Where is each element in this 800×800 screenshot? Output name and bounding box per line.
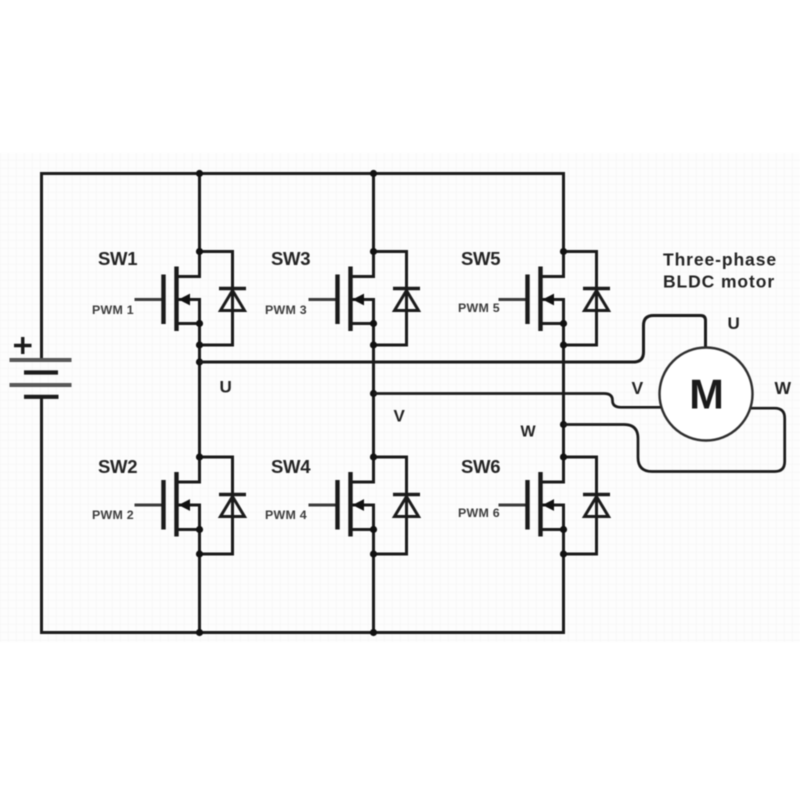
node source SW4 xyxy=(370,550,377,557)
svg-text:U: U xyxy=(220,378,232,397)
node top rail col2 xyxy=(370,170,377,177)
wire battery positive lead xyxy=(40,174,43,359)
battery BT1 xyxy=(10,337,72,397)
wire source column SW5 to drain SW6 xyxy=(562,300,565,483)
wire top positive rail xyxy=(42,172,564,175)
transistor SW6 xyxy=(499,472,568,537)
svg-text:SW6: SW6 xyxy=(461,456,500,477)
wire source column SW2 to bottom rail xyxy=(198,505,201,633)
svg-text:BLDC motor: BLDC motor xyxy=(663,272,775,292)
wire bottom negative rail xyxy=(42,631,564,634)
HALF BRIDGE COLUMN 2 xyxy=(372,174,375,633)
HALF BRIDGE COLUMN 1 xyxy=(198,174,201,633)
svg-text:M: M xyxy=(689,371,724,418)
node source SW1 xyxy=(196,341,203,348)
svg-text:W: W xyxy=(775,378,792,398)
node bottom rail col2 xyxy=(370,629,377,636)
diode D6 xyxy=(564,457,611,554)
diode D5 xyxy=(564,252,611,346)
svg-text:PWM 1: PWM 1 xyxy=(92,303,134,317)
wire phase W to motor xyxy=(564,408,785,471)
svg-text:SW5: SW5 xyxy=(461,248,500,269)
node source SW6 xyxy=(560,550,567,557)
HALF BRIDGE COLUMN 3 xyxy=(562,174,565,633)
svg-text:V: V xyxy=(632,378,644,398)
svg-text:PWM 2: PWM 2 xyxy=(92,508,134,522)
transistor SW5 xyxy=(499,267,568,332)
svg-text:PWM 4: PWM 4 xyxy=(265,508,307,522)
node drain branch SW1 xyxy=(196,248,203,255)
node drain SW2 xyxy=(196,453,203,460)
svg-text:SW1: SW1 xyxy=(98,248,137,269)
svg-text:W: W xyxy=(521,424,537,441)
diode D2 xyxy=(200,457,247,554)
node source SW5 xyxy=(560,341,567,348)
svg-text:V: V xyxy=(394,407,406,426)
node top rail col1 xyxy=(196,170,203,177)
diode D4 xyxy=(374,457,421,554)
wire battery negative lead xyxy=(40,399,43,633)
transistor SW2 xyxy=(135,472,204,537)
svg-text:SW3: SW3 xyxy=(271,248,310,269)
motor M xyxy=(660,348,753,441)
diode D1 xyxy=(200,252,247,346)
transistor SW1 xyxy=(135,267,204,332)
wire source column SW4 to bottom rail xyxy=(372,505,375,633)
svg-text:SW4: SW4 xyxy=(271,456,311,477)
wire phase V to motor xyxy=(374,394,662,408)
wire phase U to motor xyxy=(200,316,706,363)
transistor SW3 xyxy=(309,267,378,332)
wire source column SW6 to bottom rail xyxy=(562,505,565,633)
wire source column SW1 to drain SW2 xyxy=(198,300,201,483)
node V tap xyxy=(370,390,377,397)
wire drain column SW3 xyxy=(372,174,375,277)
svg-text:PWM 3: PWM 3 xyxy=(265,303,307,317)
node drain branch SW3 xyxy=(370,248,377,255)
transistor SW4 xyxy=(309,472,378,537)
node drain SW4 xyxy=(370,453,377,460)
svg-text:SW2: SW2 xyxy=(98,456,137,477)
svg-text:PWM 5: PWM 5 xyxy=(458,301,500,315)
svg-text:U: U xyxy=(728,314,740,333)
svg-text:Three-phase: Three-phase xyxy=(663,250,777,270)
diode D3 xyxy=(374,252,421,346)
node drain branch SW5 xyxy=(560,248,567,255)
node drain SW6 xyxy=(560,453,567,460)
wire source column SW3 to drain SW4 xyxy=(372,300,375,483)
wire drain column SW5 xyxy=(562,174,565,277)
svg-text:PWM 6: PWM 6 xyxy=(458,506,500,520)
node bottom rail col1 xyxy=(196,629,203,636)
node source SW2 xyxy=(196,550,203,557)
grid paper band xyxy=(0,153,800,642)
node W tap xyxy=(560,421,567,428)
node U tap xyxy=(196,358,203,365)
node source SW3 xyxy=(370,341,377,348)
wire drain column SW1 xyxy=(198,174,201,277)
